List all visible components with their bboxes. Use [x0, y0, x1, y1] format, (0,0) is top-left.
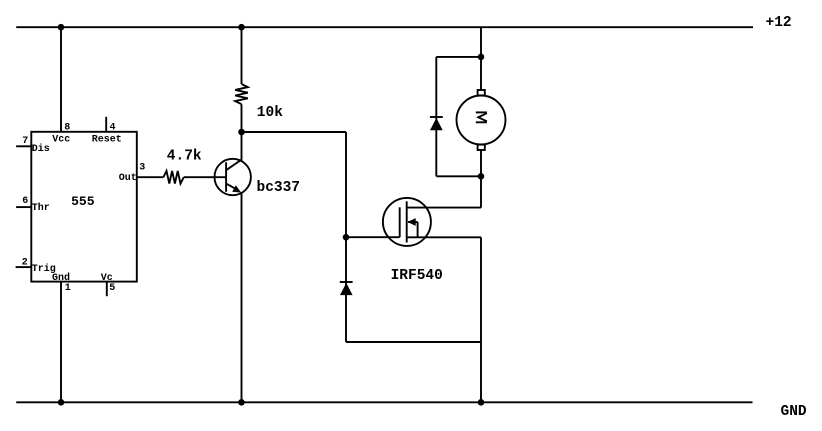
- wire: source lead to right column: [430, 236, 481, 238]
- svg-text:GND: GND: [781, 404, 807, 420]
- svg-text:5: 5: [109, 283, 115, 294]
- rotated M glyph: [476, 111, 487, 113]
- svg-text:4: 4: [110, 123, 116, 134]
- wire: pin 1 Gnd to GND rail: [60, 282, 62, 403]
- wire: motor bottom to node: [480, 150, 482, 176]
- wire: flyback loop left vertical: [435, 57, 437, 176]
- svg-text:4.7k: 4.7k: [167, 149, 202, 165]
- wire: drain column up to motor node: [480, 176, 482, 207]
- svg-text:8: 8: [64, 123, 70, 134]
- node: junction Vcc on +12 rail: [58, 24, 65, 31]
- pin 5 Vc stub: [106, 282, 108, 297]
- svg-text:6: 6: [22, 196, 28, 207]
- wire: collector node into transistor: [241, 132, 243, 161]
- wire: gate node down through diode: [345, 237, 347, 342]
- node: source junction on GND rail: [478, 399, 485, 406]
- pin 7 Dis stub: [16, 145, 31, 147]
- svg-text:Vcc: Vcc: [52, 135, 70, 146]
- node: junction Gnd on GND rail: [58, 399, 65, 406]
- svg-text:Reset: Reset: [92, 135, 122, 146]
- wire: loop bottom horizontal: [346, 341, 481, 343]
- wire: gate column vertical down to gate node: [345, 132, 347, 237]
- pin 4 Reset stub: [105, 117, 107, 132]
- wire: gate node to MOSFET gate: [346, 236, 400, 238]
- svg-text:Out: Out: [119, 173, 137, 184]
- wire: +12 rail to 10k resistor: [241, 27, 243, 84]
- wire: collector node to gate column (horizontal): [242, 131, 347, 133]
- node: motor bottom junction: [478, 173, 485, 180]
- IC U1 555 timer box: [31, 132, 137, 282]
- node: emitter junction on GND rail: [238, 399, 245, 406]
- wire: 10k to collector node: [241, 104, 243, 132]
- svg-text:3: 3: [139, 163, 145, 174]
- node: top rail junction at collector column: [238, 24, 245, 31]
- wire: pin 8 Vcc to +12 rail: [60, 27, 62, 132]
- wire: Out pin 3 to resistor: [137, 176, 164, 178]
- wire: resistor to base: [184, 176, 226, 178]
- svg-text:+12: +12: [766, 15, 792, 31]
- svg-text:2: 2: [22, 257, 28, 268]
- motor M: [457, 90, 506, 150]
- svg-text:IRF540: IRF540: [391, 268, 443, 284]
- wire GND bottom rail: [16, 401, 752, 403]
- resistor 4.7k: [163, 171, 183, 184]
- diode D2 gate-source: [340, 282, 353, 295]
- svg-text:bc337: bc337: [257, 180, 301, 196]
- svg-text:Thr: Thr: [32, 202, 50, 214]
- pin 6 Thr stub: [16, 206, 31, 208]
- wire: drain lead to right column: [430, 207, 481, 209]
- svg-text:7: 7: [22, 136, 28, 147]
- node: flyback top junction: [478, 54, 485, 61]
- node: gate junction: [343, 234, 350, 241]
- svg-text:Dis: Dis: [32, 143, 50, 155]
- terminal top: [478, 90, 485, 95]
- wire +12 top rail: [16, 26, 753, 28]
- svg-text:10k: 10k: [257, 105, 283, 121]
- wire: flyback loop top: [436, 56, 481, 58]
- wire: +12 rail to motor top: [480, 27, 482, 90]
- wire: flyback loop bottom: [436, 175, 481, 177]
- wire: emitter to GND rail: [241, 193, 243, 402]
- svg-text:555: 555: [71, 194, 95, 209]
- pin 2 Trig stub: [16, 266, 32, 268]
- node: collector junction: [238, 129, 245, 136]
- transistor Q1 bc337: [215, 159, 251, 195]
- svg-text:1: 1: [65, 283, 71, 294]
- terminal bottom: [478, 145, 485, 150]
- transistor Q2 IRF540 MOSFET: [383, 198, 431, 246]
- diode D1 flyback: [430, 117, 443, 130]
- wire: source column down to GND rail: [480, 237, 482, 402]
- resistor 10k: [235, 84, 248, 104]
